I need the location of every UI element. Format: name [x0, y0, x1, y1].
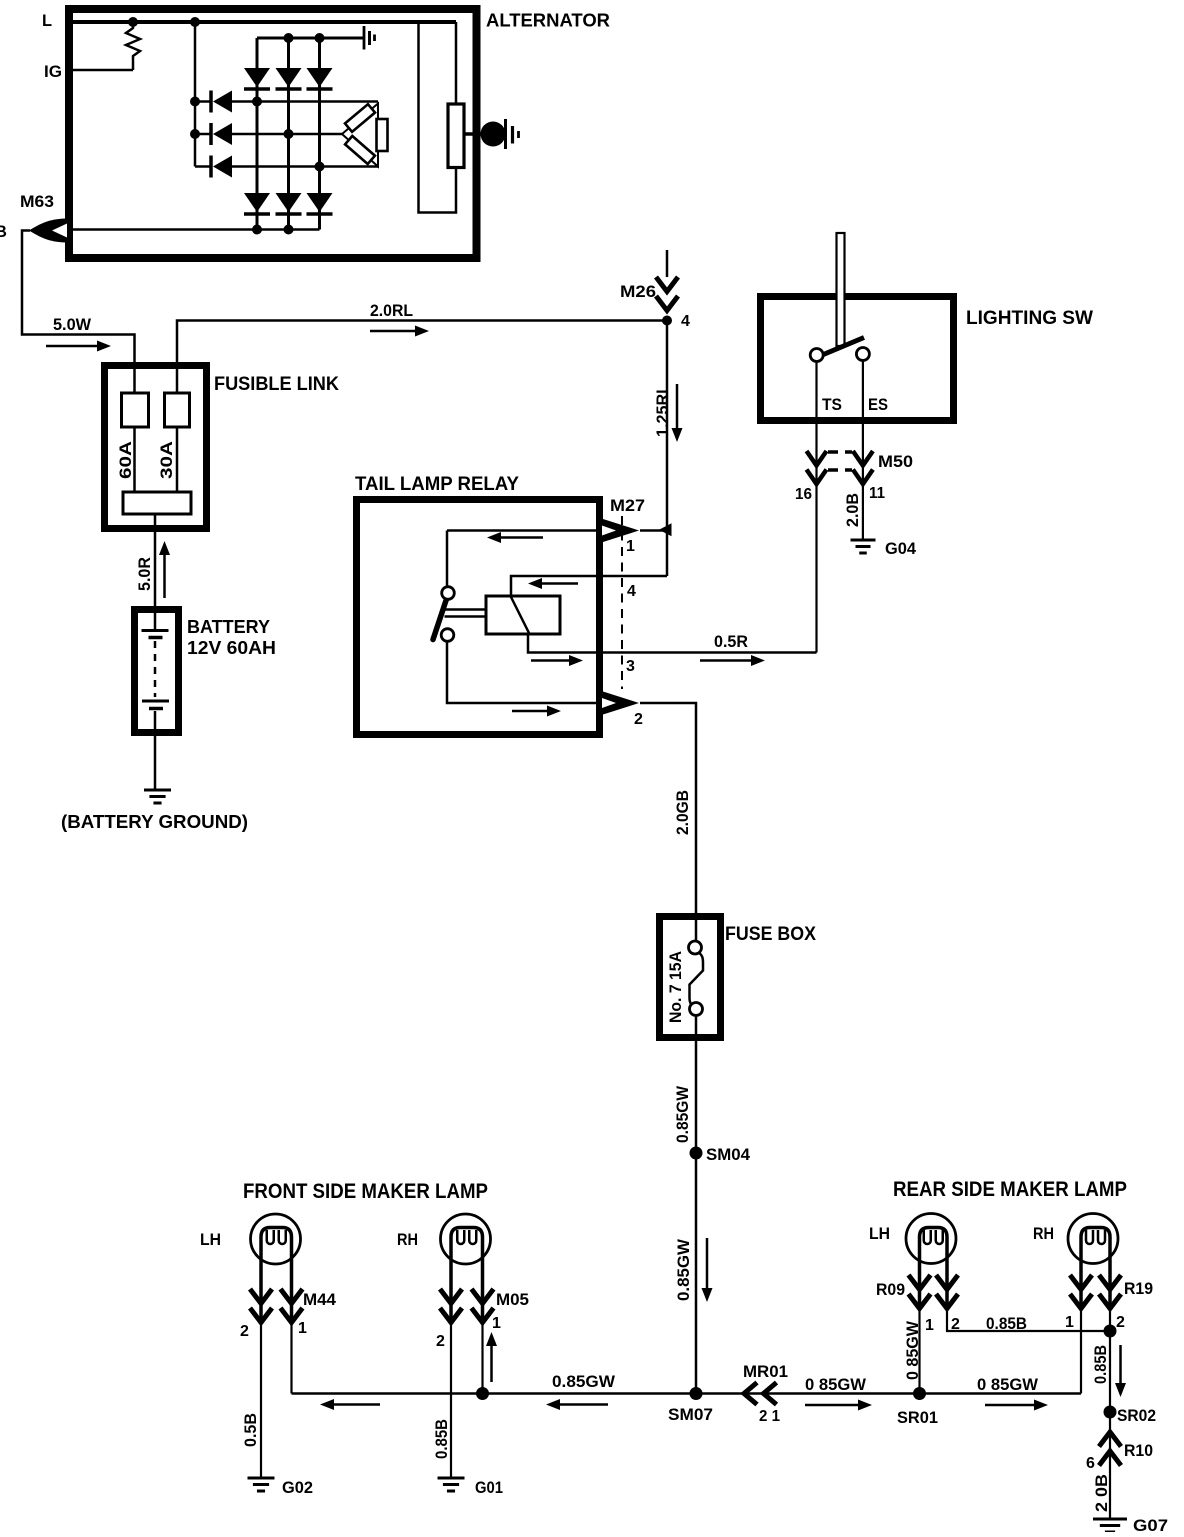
arrow 1.25RL flow — [676, 384, 679, 431]
node SR01 dot — [913, 1387, 926, 1400]
lamp front LH — [251, 1214, 301, 1264]
connector M26 chevrons — [656, 277, 678, 292]
wire row2 — [232, 133, 342, 136]
wire pin2 to fuse box — [640, 703, 696, 913]
svg-text:0.5B: 0.5B — [242, 1413, 260, 1447]
svg-text:IG: IG — [44, 63, 62, 81]
svg-text:LIGHTING SW: LIGHTING SW — [966, 308, 1093, 329]
arrow flow left pin4 — [539, 582, 578, 585]
svg-text:16: 16 — [795, 486, 812, 503]
svg-text:5.0R: 5.0R — [136, 557, 154, 591]
svg-text:0.85GW: 0.85GW — [552, 1373, 615, 1391]
svg-text:60A: 60A — [117, 441, 135, 479]
svg-text:(BATTERY GROUND): (BATTERY GROUND) — [61, 811, 248, 832]
connector M50 chevrons ES — [853, 451, 873, 466]
wire ES to ground — [862, 361, 864, 540]
arrow 5.0W flow — [46, 345, 100, 348]
diode D5 row2 — [195, 133, 211, 136]
svg-text:0 85GW: 0 85GW — [977, 1376, 1038, 1394]
svg-text:M27: M27 — [610, 497, 645, 515]
wire 1.25RL — [666, 321, 669, 577]
tail lamp relay box — [357, 500, 600, 735]
relay switch contact lower — [441, 629, 454, 642]
arrow flow left internal top — [498, 536, 543, 539]
lamp rear LH — [906, 1214, 956, 1264]
svg-text:2: 2 — [436, 1333, 445, 1350]
wire relay pin1 internal — [447, 529, 600, 532]
relay switch lever — [433, 589, 450, 640]
node dot front RH pin1 — [476, 1387, 489, 1400]
wire rear LH pin1 to SR01 — [918, 1308, 920, 1394]
wire to B terminal — [464, 132, 484, 136]
node SM04 dot — [690, 1147, 703, 1160]
svg-text:G02: G02 — [282, 1479, 313, 1497]
relay armature link — [445, 608, 487, 611]
connector M05 chevrons — [440, 1289, 462, 1304]
wire regulator top branch — [455, 22, 458, 104]
svg-text:0.5R: 0.5R — [714, 633, 748, 651]
arrow bus flow left 2 — [557, 1403, 608, 1406]
alternator box — [69, 9, 477, 258]
node dot row1-col1 — [252, 97, 262, 107]
ground G02 symbol — [248, 1477, 275, 1480]
arrow bus flow left 1 — [331, 1403, 380, 1406]
svg-text:0.85B: 0.85B — [1092, 1345, 1110, 1384]
fuse box — [660, 917, 721, 1038]
wire column3 — [318, 38, 321, 230]
relay switch contact upper — [442, 587, 455, 600]
wire column2 — [287, 38, 290, 230]
node dot x133 — [128, 17, 138, 27]
diode D1 top col1 — [244, 68, 270, 87]
node SR02 dot — [1104, 1406, 1117, 1419]
wire main bus 0.85GW — [292, 1392, 1082, 1395]
svg-text:0.85GW: 0.85GW — [675, 1239, 693, 1301]
wire top bus y38 — [257, 37, 364, 40]
wire B to fusible link 5.0W — [22, 231, 135, 363]
node 4 dot — [662, 316, 672, 326]
fuse 30A element — [176, 362, 179, 393]
arrow 0.85B flow down — [1119, 1345, 1122, 1386]
svg-text:2: 2 — [240, 1323, 249, 1340]
svg-text:4: 4 — [627, 583, 636, 600]
connector M50 chevrons TS — [807, 451, 827, 466]
svg-text:B: B — [0, 223, 7, 241]
svg-text:1: 1 — [492, 1315, 501, 1332]
connector R09 chevrons — [909, 1275, 931, 1290]
svg-text:FUSIBLE LINK: FUSIBLE LINK — [214, 374, 339, 395]
svg-text:RH: RH — [1033, 1225, 1054, 1243]
lighting sw lever pole — [837, 233, 845, 346]
svg-text:2: 2 — [634, 711, 643, 728]
ground G01 symbol — [438, 1477, 465, 1480]
node SM07 dot — [690, 1387, 703, 1400]
wire 2.0RL — [177, 321, 664, 363]
arrow bus flow right 2 — [985, 1404, 1037, 1407]
lighting sw contact TS — [810, 349, 823, 362]
node dot row3-col3 — [315, 162, 325, 172]
wire front LH pin2 to G02 — [260, 1322, 262, 1477]
arrow flow right internal bottom — [512, 710, 550, 713]
diode D3 top col3 — [307, 68, 333, 87]
svg-text:SR01: SR01 — [897, 1409, 938, 1427]
terminal B bars — [504, 119, 507, 149]
connector M27 pin 2 arrow — [603, 692, 639, 715]
lighting sw contact ES — [856, 348, 869, 361]
svg-text:0.85B: 0.85B — [433, 1419, 451, 1459]
node dot bottom-col2 — [284, 225, 294, 235]
svg-text:FUSE BOX: FUSE BOX — [725, 924, 816, 945]
wire SM04 to SM07 — [695, 1153, 698, 1394]
diode D4 row1 — [195, 100, 211, 103]
wire row3 — [232, 165, 378, 168]
svg-text:30A: 30A — [158, 441, 176, 479]
svg-text:G01: G01 — [475, 1479, 503, 1497]
arrow bus flow right 1 — [805, 1404, 861, 1407]
connector M50 dashes — [828, 450, 852, 454]
fuse No.7 15A — [695, 913, 698, 941]
svg-text:4: 4 — [681, 313, 690, 330]
connector M44 chevrons — [250, 1289, 272, 1304]
connector M27 dashed line — [621, 516, 623, 689]
svg-text:12V 60AH: 12V 60AH — [187, 637, 276, 658]
node dot 195/134 — [190, 129, 200, 139]
svg-text:ES: ES — [868, 396, 888, 414]
resistor rotor field coil — [126, 22, 140, 70]
svg-text:5.0W: 5.0W — [53, 316, 91, 334]
svg-text:BATTERY: BATTERY — [187, 616, 271, 637]
arrow 0.5R flow — [700, 659, 754, 662]
svg-text:1: 1 — [925, 1317, 934, 1334]
svg-text:2.0GB: 2.0GB — [674, 790, 692, 835]
svg-text:G07: G07 — [1133, 1517, 1168, 1532]
svg-text:SR02: SR02 — [1117, 1407, 1156, 1425]
svg-text:0.85B: 0.85B — [986, 1315, 1027, 1333]
wire relay switch vertical — [446, 531, 449, 588]
connector M27 pin 1 arrow — [603, 519, 639, 542]
ground G04 symbol — [851, 539, 876, 542]
svg-text:M26: M26 — [620, 283, 656, 301]
svg-text:2 1: 2 1 — [759, 1408, 780, 1425]
fusible link bus bar — [123, 492, 191, 514]
wire relay pin3 internal 0.5R — [528, 634, 817, 653]
diode D9 bottom col3 — [307, 193, 333, 212]
svg-text:1: 1 — [626, 538, 635, 555]
svg-text:R09: R09 — [876, 1281, 905, 1299]
svg-text:0.85GW: 0.85GW — [674, 1086, 692, 1143]
svg-text:2 0B: 2 0B — [1093, 1474, 1111, 1512]
connector R10 chevrons — [1099, 1432, 1121, 1447]
svg-text:M50: M50 — [878, 453, 913, 471]
svg-text:FRONT SIDE MAKER LAMP: FRONT SIDE MAKER LAMP — [243, 1180, 488, 1203]
wire regulator left branch — [419, 22, 457, 213]
svg-text:R19: R19 — [1124, 1280, 1153, 1298]
node dot row2-col2 — [284, 129, 294, 139]
wire relay pin2 internal — [447, 641, 600, 703]
wire relay pin4 internal — [511, 576, 667, 596]
wire row1 — [232, 100, 378, 103]
svg-text:1.25RL: 1.25RL — [654, 384, 672, 437]
svg-text:3: 3 — [626, 658, 635, 675]
wire rear RH pin2 down — [1109, 1308, 1111, 1518]
svg-text:SM04: SM04 — [706, 1146, 751, 1164]
battery cells — [154, 609, 157, 631]
stator winding delta — [342, 104, 378, 167]
ground G07 symbol — [1093, 1518, 1127, 1521]
svg-text:0 85GW: 0 85GW — [805, 1376, 866, 1394]
svg-text:LH: LH — [869, 1225, 890, 1243]
svg-text:TS: TS — [822, 396, 842, 414]
diode D7 bottom col1 — [244, 193, 270, 212]
svg-text:TAIL LAMP RELAY: TAIL LAMP RELAY — [355, 474, 519, 495]
svg-text:2: 2 — [1116, 1314, 1125, 1331]
node dot top-col2 — [284, 33, 294, 43]
relay coil U1 — [486, 596, 560, 634]
wire M26 stub — [666, 250, 669, 277]
wire IG — [73, 69, 133, 72]
wire front RH pin2 to G01 — [450, 1322, 452, 1477]
svg-text:L: L — [42, 12, 52, 30]
ground battery ground symbol — [144, 789, 171, 792]
svg-text:0 85GW: 0 85GW — [904, 1321, 922, 1380]
arrow flow right pin3 — [531, 659, 572, 662]
connector M63 arrow — [29, 219, 66, 243]
svg-text:MR01: MR01 — [743, 1363, 788, 1381]
wire L bus y=22 — [73, 20, 456, 24]
svg-text:M63: M63 — [20, 193, 54, 211]
svg-text:1: 1 — [1065, 1314, 1074, 1331]
wire rear RH pin1 to bus — [1080, 1308, 1082, 1394]
wire fuse box to SM04 — [695, 1041, 698, 1153]
svg-text:No. 7 15A: No. 7 15A — [667, 951, 685, 1023]
arrow 2.0RL flow — [370, 330, 418, 333]
svg-text:RH: RH — [397, 1231, 418, 1249]
wire battery to ground — [154, 733, 157, 789]
fuse 60A element — [133, 362, 136, 393]
svg-text:2.0B: 2.0B — [844, 493, 862, 527]
arrow front RH flow up — [490, 1343, 493, 1382]
svg-text:LH: LH — [200, 1231, 221, 1249]
wire pin1 to node — [640, 529, 667, 532]
connector MR01 chevrons — [744, 1383, 757, 1405]
wire left vertical x195 — [194, 22, 197, 167]
wire front RH pin1 to bus — [481, 1322, 483, 1394]
diode D8 bottom col2 — [276, 193, 302, 212]
node dot x195 — [190, 17, 200, 27]
svg-text:G04: G04 — [885, 540, 917, 558]
terminal B output dot — [481, 122, 506, 147]
svg-text:REAR SIDE MAKER LAMP: REAR SIDE MAKER LAMP — [893, 1178, 1127, 1201]
svg-text:2.0RL: 2.0RL — [370, 302, 413, 320]
regulator resistor — [448, 104, 464, 168]
arrowhead at node — [659, 523, 672, 536]
wire rear LH pin2 0.85B — [947, 1308, 1110, 1331]
svg-text:11: 11 — [869, 485, 885, 502]
svg-text:SM07: SM07 — [668, 1406, 713, 1424]
arrow 0.85GW flow down — [706, 1238, 709, 1291]
lamp front RH — [441, 1214, 491, 1264]
lighting sw box — [761, 297, 954, 421]
wire TS to pin 16 — [815, 362, 817, 653]
svg-text:ALTERNATOR: ALTERNATOR — [486, 10, 610, 31]
node dot top-col3 — [315, 33, 325, 43]
node dot bottom-col1 — [252, 225, 262, 235]
ground neutral point symbol — [363, 26, 366, 50]
svg-text:R10: R10 — [1124, 1442, 1153, 1460]
battery box — [135, 610, 179, 733]
svg-text:1: 1 — [298, 1320, 307, 1337]
diode D2 top col2 — [276, 68, 302, 87]
node dot 0.85B junction — [1104, 1325, 1117, 1338]
svg-text:M44: M44 — [303, 1291, 337, 1309]
wire bottom bus y229.5 to B — [73, 228, 320, 231]
wire fusible link to battery 5.0R — [154, 514, 157, 606]
node dot 195/101 — [190, 97, 200, 107]
connector R19 chevrons — [1070, 1275, 1092, 1290]
svg-text:6: 6 — [1086, 1455, 1095, 1472]
wire column1 — [256, 38, 259, 230]
arrow 5.0R flow — [163, 552, 166, 598]
lamp rear RH — [1068, 1214, 1118, 1264]
wire front LH pin1 to bus — [290, 1322, 292, 1394]
svg-text:M05: M05 — [496, 1291, 529, 1309]
fusible link box — [105, 366, 207, 529]
diode D6 row3 — [195, 165, 211, 168]
lighting sw lever — [821, 338, 864, 356]
